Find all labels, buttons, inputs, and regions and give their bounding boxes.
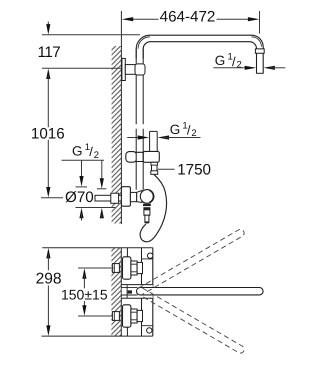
valve cone bbox=[137, 191, 142, 203]
bracket clamp on riser bbox=[135, 64, 145, 75]
dimension 464-472 line bbox=[129, 18, 253, 20]
swivel arm horizontal bbox=[137, 288, 264, 295]
swivel arm mount slot bbox=[122, 285, 153, 299]
svg-text:G: G bbox=[170, 122, 181, 137]
arm end fitting band bbox=[255, 49, 264, 53]
298 dimension bbox=[46, 248, 50, 259]
arrow down at supply axis bbox=[46, 187, 50, 198]
underline / leader of top G 1/2 bbox=[213, 67, 250, 69]
leader to rosette top bbox=[81, 160, 83, 179]
top union: union nut bbox=[137, 262, 142, 273]
G 1/2 label top right bbox=[215, 52, 242, 71]
valve body block bbox=[130, 192, 136, 201]
arrow left of 464-472 bbox=[122, 17, 134, 21]
bottom union: rosette bbox=[123, 305, 131, 327]
dashed arm up bbox=[139, 228, 246, 294]
bottom union: union nut bbox=[137, 310, 142, 321]
svg-text:117: 117 bbox=[38, 44, 61, 61]
svg-text:2: 2 bbox=[237, 59, 242, 70]
body bottom line / 298 bottom extension bbox=[42, 335, 153, 337]
opposing arrow right bbox=[263, 66, 275, 70]
knob shading arc bbox=[149, 190, 153, 202]
screw bottom bbox=[147, 328, 152, 333]
G 1/2 dimension (hand shower thread) bbox=[127, 137, 142, 139]
svg-text:G: G bbox=[72, 143, 83, 158]
valve body (side view) bbox=[152, 248, 154, 336]
G 1/2 label middle bbox=[170, 120, 197, 139]
top union: supply stub bbox=[112, 264, 119, 273]
tick fitting top bbox=[97, 188, 106, 190]
dimension 117 extension lines bbox=[42, 35, 140, 69]
arrow to pipe left edge bbox=[245, 66, 257, 70]
shower arm outer contour bbox=[136, 35, 263, 73]
bottom union: supply stub bbox=[112, 312, 119, 321]
shower arm inner contour bbox=[143, 42, 256, 74]
hand shower connector stub above holder bbox=[150, 131, 158, 151]
arrow up to bottom ext line / 1016 dim line bbox=[46, 69, 50, 80]
extension line right (shower arm end) bbox=[259, 11, 261, 34]
svg-text:1750: 1750 bbox=[177, 162, 211, 179]
supply union nut bbox=[111, 193, 119, 203]
underline of left G 1/2 bbox=[62, 159, 105, 161]
top union: hex nut bbox=[131, 261, 137, 275]
wall bracket plate bbox=[122, 58, 125, 80]
leader to fitting top bbox=[101, 160, 103, 182]
screw top bbox=[148, 253, 153, 258]
svg-text:G: G bbox=[215, 53, 226, 68]
body top line / 298 top extension bbox=[42, 247, 153, 249]
arm end cap bbox=[257, 72, 264, 74]
riser pipe (with break) bbox=[136, 49, 143, 64]
svg-text:2: 2 bbox=[94, 150, 99, 161]
shower hose loop bbox=[140, 175, 166, 242]
wall surface line (bottom view) bbox=[120, 248, 122, 336]
bottom tick line bbox=[76, 207, 116, 209]
hand shower below knob: bands bbox=[143, 204, 151, 206]
wall surface line (top view) bbox=[120, 11, 122, 224]
arrow right of 464-472 bbox=[248, 17, 260, 21]
wall hatching (top view) bbox=[112, 46, 122, 224]
svg-text:/: / bbox=[232, 54, 236, 69]
hose nipple below holder bbox=[152, 162, 158, 174]
up arrow rosette bottom bbox=[79, 208, 83, 219]
dashed arm down bbox=[139, 288, 246, 354]
left bend shading arc bbox=[138, 37, 150, 49]
top union: rosette bbox=[123, 257, 131, 279]
right bend shading arc bbox=[252, 37, 262, 47]
1750 leader line bbox=[158, 168, 175, 170]
wall hatching (bottom view) bbox=[111, 248, 121, 336]
svg-text:464-472: 464-472 bbox=[160, 8, 216, 25]
150+-15 dimension bbox=[78, 268, 114, 316]
G 1/2 label left bbox=[72, 142, 99, 161]
extension line at supply axis bbox=[41, 197, 63, 199]
arrow down to top ext line bbox=[47, 22, 49, 29]
svg-text:Ø70: Ø70 bbox=[65, 189, 94, 206]
up arrow fitting bottom bbox=[100, 208, 104, 219]
svg-text:150±15: 150±15 bbox=[61, 286, 108, 302]
valve rosette (front) bbox=[121, 187, 130, 207]
bottom union: hex nut bbox=[131, 309, 137, 323]
svg-text:/: / bbox=[89, 144, 93, 159]
tick rosette top bbox=[76, 186, 88, 188]
svg-text:298: 298 bbox=[36, 271, 62, 288]
hand shower holder arm on riser bbox=[126, 152, 137, 163]
dimension 1016 line bbox=[47, 75, 49, 191]
svg-text:/: / bbox=[187, 123, 191, 138]
svg-text:1016: 1016 bbox=[31, 125, 65, 142]
thermostat knob bbox=[140, 190, 154, 204]
bracket connector bbox=[125, 65, 136, 75]
supply pipe in wall bbox=[95, 195, 121, 201]
svg-text:2: 2 bbox=[191, 128, 196, 139]
